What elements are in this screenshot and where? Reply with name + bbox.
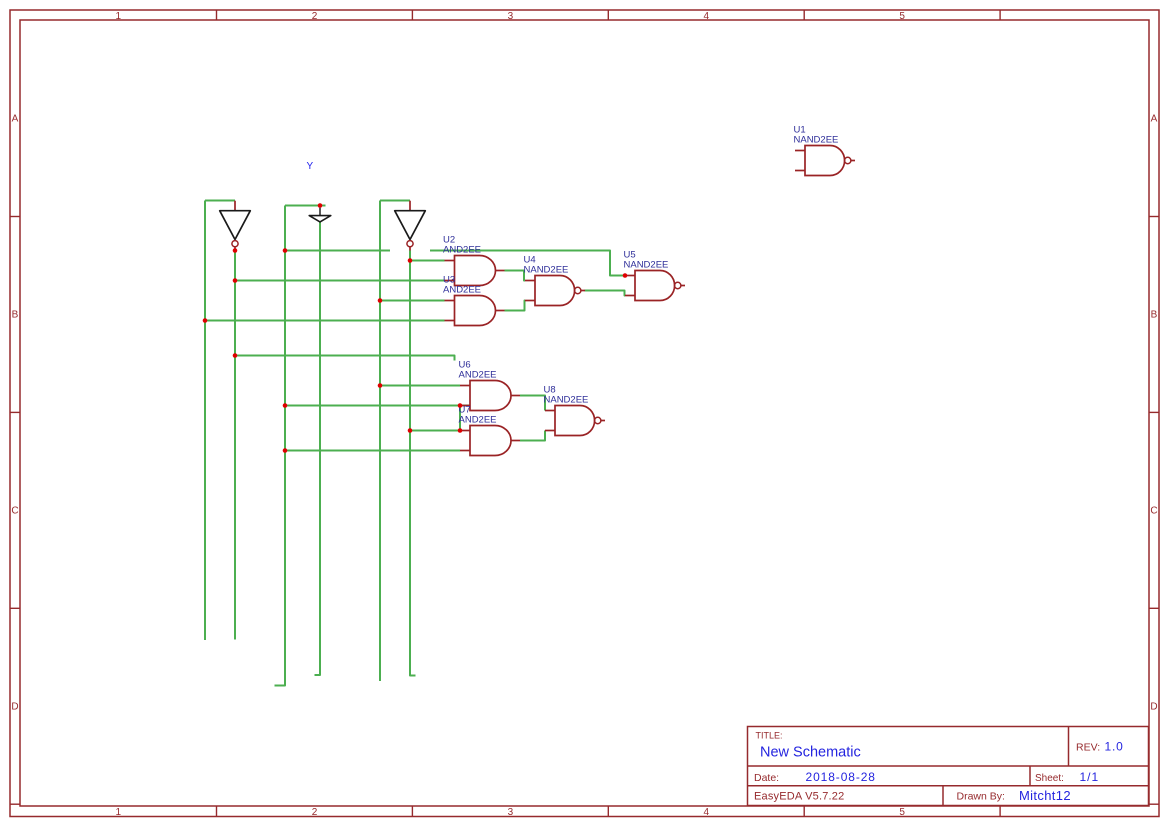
junction U6B right	[458, 403, 463, 408]
svg-text:Date:: Date:	[754, 772, 779, 784]
nand gate U8 NAND2EE	[545, 406, 605, 436]
wire to U7 input A	[410, 430, 460, 432]
nand gate U5 NAND2EE	[625, 271, 685, 301]
wire ground triangle vertical	[315, 222, 321, 675]
junction inverter U10 out	[408, 258, 413, 263]
title block	[748, 727, 1149, 806]
nand gate U1 NAND2EE	[795, 146, 855, 176]
frame tick marks	[216, 10, 218, 20]
svg-text:REV:: REV:	[1076, 742, 1100, 754]
and gate U2 AND2EE	[445, 256, 505, 286]
wire to U7 input B	[285, 450, 460, 452]
wire to U6 input B	[285, 405, 470, 407]
svg-text:1: 1	[116, 11, 122, 22]
wire vertical bus 2	[275, 206, 286, 686]
svg-text:Sheet:: Sheet:	[1035, 773, 1064, 784]
svg-text:B: B	[12, 310, 19, 321]
wire U4 output to U5 input B	[585, 291, 626, 296]
svg-text:1.0: 1.0	[1105, 740, 1124, 754]
svg-text:A: A	[1151, 114, 1158, 125]
svg-text:C: C	[11, 506, 18, 517]
svg-text:NAND2EE: NAND2EE	[624, 259, 669, 270]
svg-text:1: 1	[116, 807, 122, 818]
junction net Y	[318, 203, 323, 208]
svg-text:5: 5	[899, 807, 905, 818]
svg-text:AND2EE: AND2EE	[459, 369, 497, 380]
wire dangling stub row B	[285, 250, 390, 252]
inverter U10 (NOT gate, down)	[409, 201, 411, 211]
svg-text:D: D	[11, 702, 18, 713]
svg-text:NAND2EE: NAND2EE	[524, 264, 569, 275]
junction U6A	[378, 383, 383, 388]
svg-text:Mitcht12: Mitcht12	[1019, 788, 1071, 803]
svg-text:4: 4	[704, 807, 710, 818]
inverter U9 (NOT gate, down)	[234, 201, 236, 211]
svg-text:2: 2	[312, 11, 318, 22]
svg-text:AND2EE: AND2EE	[443, 284, 481, 295]
junction U3B	[203, 318, 208, 323]
ground symbol net Y	[309, 208, 331, 222]
junction U7A left	[408, 428, 413, 433]
wire to U3 input A	[380, 300, 445, 302]
svg-text:NAND2EE: NAND2EE	[794, 134, 839, 145]
and gate U6 AND2EE	[460, 381, 520, 411]
svg-text:NAND2EE: NAND2EE	[544, 394, 589, 405]
wire to U3 input B	[205, 320, 445, 322]
svg-text:3: 3	[508, 11, 514, 22]
svg-text:New Schematic: New Schematic	[760, 745, 861, 761]
svg-text:5: 5	[899, 11, 905, 22]
junction row B stub	[283, 248, 288, 253]
wire vertical bus 1	[204, 201, 206, 641]
and gate U7 AND2EE	[460, 426, 520, 456]
svg-text:Y: Y	[307, 161, 314, 172]
wire U2 output to U4 input A	[505, 271, 526, 281]
svg-text:3: 3	[508, 807, 514, 818]
svg-text:TITLE:: TITLE:	[756, 731, 783, 741]
junction U7B	[283, 448, 288, 453]
junction U7A right	[458, 428, 463, 433]
wire U3 output to U4 input B	[505, 301, 526, 311]
svg-text:B: B	[1151, 310, 1158, 321]
junction U6B left	[283, 403, 288, 408]
wire U6 output to U8 input A	[520, 396, 545, 411]
svg-text:D: D	[1150, 702, 1157, 713]
wire U7 output to U8 input B	[520, 431, 545, 441]
wire to U6 input A	[380, 385, 460, 387]
junction U2B	[233, 278, 238, 283]
svg-text:AND2EE: AND2EE	[459, 414, 497, 425]
wire dangling hook row	[235, 356, 455, 361]
wire to U2 input B	[235, 280, 445, 282]
svg-text:EasyEDA V5.7.22: EasyEDA V5.7.22	[754, 791, 844, 803]
svg-text:AND2EE: AND2EE	[443, 244, 481, 255]
svg-text:Drawn By:: Drawn By:	[957, 791, 1005, 803]
wire net to inverter U9 input	[205, 200, 235, 202]
junction hook row	[233, 353, 238, 358]
junction inverter U9 out	[233, 248, 238, 253]
wire link U6B-U7A	[459, 406, 461, 431]
wire to U5 input A	[430, 251, 625, 276]
wire inverter U10 output vertical	[410, 251, 416, 676]
svg-text:A: A	[12, 114, 19, 125]
svg-text:1/1: 1/1	[1080, 770, 1100, 784]
wire net Y to ground triangle	[285, 205, 326, 207]
and gate U3 AND2EE	[445, 296, 505, 326]
wire vertical bus 3	[379, 201, 381, 682]
svg-text:4: 4	[704, 11, 710, 22]
junction U5A	[623, 273, 628, 278]
wire net to inverter U10 input	[380, 200, 410, 202]
svg-text:2: 2	[312, 807, 318, 818]
svg-text:2018-08-28: 2018-08-28	[806, 770, 876, 784]
wire inverter U9 output vertical	[234, 251, 236, 640]
svg-text:C: C	[1150, 506, 1157, 517]
wire to U2 input A	[410, 260, 445, 262]
nand gate U4 NAND2EE	[525, 276, 585, 306]
junction U3A	[378, 298, 383, 303]
